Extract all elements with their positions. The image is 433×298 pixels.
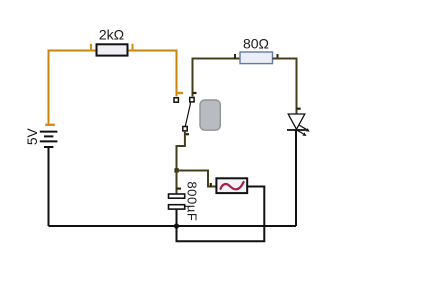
- resistor R2 80Ohm body: [240, 52, 273, 64]
- svg-text:2kΩ: 2kΩ: [99, 27, 124, 43]
- pin tick switch common: [185, 133, 189, 135]
- pin tick LED anode terminal: [297, 108, 301, 110]
- capacitor C1 top plate: [169, 194, 185, 198]
- pin tick switch right contact: [193, 92, 197, 94]
- capacitor C1 bottom plate: [169, 205, 185, 209]
- svg-text:5V: 5V: [25, 127, 40, 145]
- AC source V1 sine wave symbol: [221, 182, 244, 189]
- svg-text:800µF: 800µF: [184, 181, 199, 221]
- LED D1 emission arrow 2: [297, 130, 306, 136]
- pin tick AC source left terminal: [210, 183, 212, 187]
- wire node A to AC source V1 left terminal (dark): [177, 171, 217, 187]
- switch SW1 left contact node square: [174, 98, 178, 102]
- wire battery positive to R1 (orange, up and across): [49, 51, 97, 125]
- battery B1 5V plates: [40, 132, 58, 147]
- wire AC source right terminal down and around to node A (black): [177, 187, 265, 242]
- switch SW1 right contact node square: [190, 98, 194, 102]
- resistor R1 2kOhm body: [97, 44, 128, 55]
- pin tick capacitor top terminal: [177, 188, 182, 190]
- switch SW1 common node square: [183, 127, 187, 131]
- switch SW1 push-button actuator: [200, 100, 220, 130]
- wire switch common down, jog left, down to junction node A (dark): [177, 131, 185, 170]
- pin tick R2 left terminal: [234, 54, 236, 59]
- wire R2 right terminal to LED anode (dark): [273, 59, 297, 114]
- wire LED cathode down to bottom rail (black): [295, 130, 297, 227]
- wire battery negative down to bottom rail (black): [48, 147, 50, 226]
- LED D1 emission arrow 1: [300, 125, 310, 131]
- pin tick R1 left terminal: [90, 44, 92, 51]
- switch SW1 blade: [185, 103, 190, 127]
- LED D1 triangle: [288, 114, 305, 129]
- pin tick R1 right terminal: [132, 44, 134, 51]
- pin tick switch left contact (orange): [177, 92, 184, 94]
- junction node A dot: [174, 168, 178, 172]
- svg-text:80Ω: 80Ω: [243, 36, 269, 52]
- wire bottom rail from battery to LED cathode column (black): [49, 225, 297, 227]
- AC source V1 body box: [216, 178, 247, 193]
- wire capacitor bottom plate to bottom rail (black): [176, 209, 178, 226]
- pin tick battery positive terminal: [45, 124, 55, 126]
- pin tick R2 right terminal: [277, 54, 279, 59]
- junction node B dot on bottom rail: [174, 223, 179, 228]
- LED D1 cathode bar: [287, 129, 306, 131]
- wire node A down to capacitor C1 top plate (dark): [176, 170, 178, 194]
- wire R1 right to switch left contact (orange): [128, 51, 177, 97]
- wire switch right contact up and across to R2 (dark): [193, 59, 241, 97]
